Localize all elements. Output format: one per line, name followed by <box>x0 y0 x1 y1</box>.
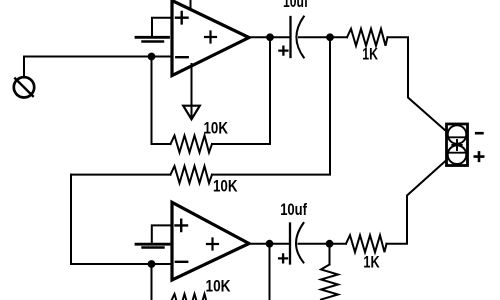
op-amp U2 body + <box>207 239 218 250</box>
wire feedback row 1 right <box>212 37 270 144</box>
op-amp U1 + input label <box>176 12 188 23</box>
wire input jack to op-amp U1 inverting input <box>24 57 172 78</box>
node U1 output dot <box>266 33 274 41</box>
power stub above U1 <box>190 0 192 9</box>
op-amp U2 - input label <box>176 261 187 263</box>
wire R2 to speaker top <box>388 37 447 131</box>
svg-text:10uf: 10uf <box>283 0 308 11</box>
node C1 right dot <box>326 33 334 41</box>
speaker SP1 body <box>447 124 468 166</box>
capacitor C2 curved plate <box>296 223 304 263</box>
wire feedback row 2 left down to op-amp U2 input <box>70 175 72 264</box>
wire node A down to feedback row <box>151 57 153 145</box>
resistor R6 10K zigzag (clipped at bottom) <box>171 294 213 300</box>
wire cap node to vertical resistor R5 <box>329 244 331 265</box>
speaker SP1 chord lines <box>448 137 466 152</box>
resistor R3 10K zigzag <box>171 166 213 183</box>
wire feedback row 2 right up to cap node <box>212 37 330 174</box>
wire R4 to speaker bottom <box>387 160 447 244</box>
ground arrow below U1 <box>183 106 200 120</box>
input jack J1 <box>14 77 34 97</box>
speaker + label <box>475 152 483 160</box>
svg-text:10uf: 10uf <box>280 201 307 219</box>
wire U2 input node down (clipped) <box>151 264 153 300</box>
op-amp U2 <box>172 202 249 280</box>
wire U2 output node down (clipped) <box>269 244 271 300</box>
node A dot <box>148 53 156 61</box>
battery B2 wire to U2 + input <box>152 225 172 242</box>
node U2 output dot <box>266 240 274 248</box>
svg-text:1K: 1K <box>363 253 379 271</box>
speaker - label <box>476 132 482 135</box>
wire C2 to resistor R4 <box>299 243 347 245</box>
svg-text:10K: 10K <box>206 278 231 296</box>
junction node dots <box>148 33 334 268</box>
ground arrow shaft <box>191 64 193 119</box>
node C2 right dot <box>326 240 334 248</box>
capacitor C2 + mark <box>279 254 287 262</box>
wire C1 to resistor R2 <box>299 36 347 38</box>
resistor R2 1K zigzag <box>347 29 388 46</box>
wire op-amp U2 inverting input row <box>71 263 172 265</box>
capacitor C2 10uf left plate <box>289 224 291 264</box>
resistor R4 1K zigzag <box>346 235 387 252</box>
op-amp U1 <box>172 1 249 76</box>
svg-text:10K: 10K <box>213 177 238 195</box>
battery B1 wire to U1 + input <box>152 18 172 36</box>
battery B1 short plate <box>143 40 164 42</box>
op-amp U1 - input label <box>176 56 187 58</box>
capacitor C1 curved plate <box>296 17 303 58</box>
op-amp U2 + input label <box>176 220 188 231</box>
wire U1 output row <box>249 36 290 38</box>
capacitor C1 + mark <box>279 47 287 55</box>
capacitor C1 10uf left plate <box>289 17 291 57</box>
battery B1 long plate <box>136 36 169 39</box>
speaker SP1 center mark <box>452 140 461 150</box>
node U2 input dot <box>148 260 156 268</box>
wire feedback row 2 <box>71 174 171 176</box>
svg-text:10K: 10K <box>204 120 229 138</box>
battery B2 long plate <box>136 243 169 246</box>
svg-text:1K: 1K <box>362 46 378 64</box>
op-amp U1 body + <box>205 32 216 43</box>
wire U2 output row <box>249 243 290 245</box>
speaker SP1 bottom circle <box>448 145 467 164</box>
speaker SP1 top circle <box>448 125 467 144</box>
wire feedback row 1 <box>152 143 171 145</box>
battery B2 short plate <box>143 246 164 248</box>
resistor R1 10K zigzag <box>171 136 213 153</box>
resistor R5 vertical zigzag (clipped) <box>321 265 338 300</box>
